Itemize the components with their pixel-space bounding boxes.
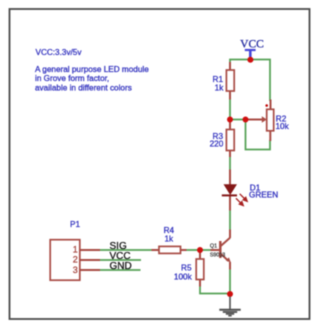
- svg-text:VCC: VCC: [110, 251, 131, 262]
- svg-text:1k: 1k: [215, 84, 225, 93]
- svg-text:in Grove form factor,: in Grove form factor,: [35, 74, 109, 83]
- svg-text:VCC:3.3v/5v: VCC:3.3v/5v: [36, 48, 83, 57]
- svg-text:P1: P1: [70, 220, 80, 229]
- svg-text:1: 1: [73, 244, 78, 254]
- svg-text:GREEN: GREEN: [249, 191, 278, 200]
- svg-text:2: 2: [73, 255, 78, 265]
- svg-text:A general purpose LED module: A general purpose LED module: [35, 65, 149, 74]
- svg-text:1k: 1k: [165, 234, 175, 243]
- svg-text:10k: 10k: [276, 122, 290, 131]
- svg-text:S9013: S9013: [210, 252, 225, 258]
- svg-text:available in different colors: available in different colors: [35, 83, 132, 92]
- svg-text:GND: GND: [110, 261, 132, 272]
- svg-text:220: 220: [210, 139, 224, 148]
- svg-text:Q1: Q1: [210, 244, 217, 250]
- svg-text:100k: 100k: [174, 272, 193, 281]
- svg-text:3: 3: [73, 265, 78, 275]
- svg-text:R5: R5: [181, 263, 192, 272]
- svg-text:VCC: VCC: [240, 39, 264, 51]
